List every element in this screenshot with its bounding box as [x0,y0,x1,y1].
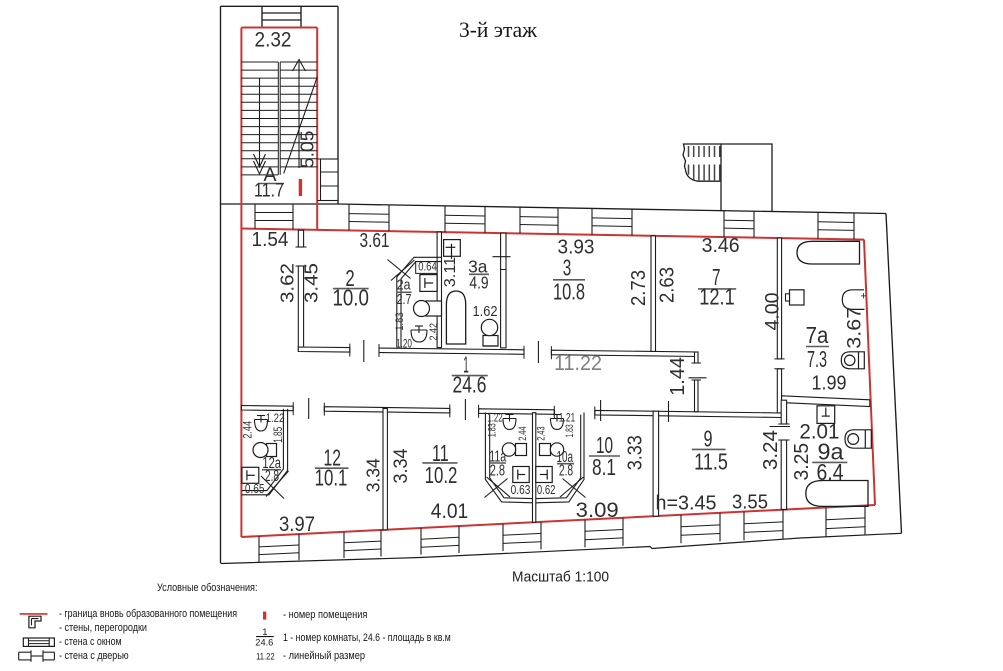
toilet 10a [536,467,552,483]
svg-text:1.21: 1.21 [559,411,576,425]
svg-text:3.46: 3.46 [702,235,740,257]
door jambs room11 door [449,404,451,417]
sink 3a [483,336,498,347]
svg-text:Масштаб 1:100: Масштаб 1:100 [512,569,609,586]
svg-text:3.97: 3.97 [279,513,315,536]
svg-text:3.11: 3.11 [442,257,459,288]
sink 2a [426,301,442,316]
wall room12/room11 [383,409,387,530]
door jambs hall-room2 [296,246,307,248]
svg-text:10.2: 10.2 [425,462,458,488]
svg-text:3.09: 3.09 [576,499,619,522]
door X mark 12a [266,471,289,497]
svg-text:3-й этаж: 3-й этаж [459,17,538,42]
door jambs 9a door [778,423,789,425]
top exterior wall outer edge [338,204,886,214]
svg-text:7а: 7а [806,322,829,348]
oval basin 7a [842,290,864,310]
svg-text:1.83: 1.83 [486,423,498,437]
svg-text:3.61: 3.61 [360,230,390,252]
dim tick corridor bottom 3 [600,400,602,421]
svg-text:3.25: 3.25 [791,443,813,481]
bottom wall window 7 [743,512,745,541]
svg-text:Условные обозначения:: Условные обозначения: [157,582,258,594]
red boundary main (top) [241,229,864,240]
corridor right wall upper [695,352,699,363]
red boundary main (left) [240,229,242,538]
svg-text:0.62: 0.62 [537,483,556,497]
svg-text:10.0: 10.0 [332,285,369,311]
svg-text:h=3.45: h=3.45 [656,493,717,515]
wall hall/room2 upper seg [298,230,303,247]
red room number mark I (staircase) [299,179,302,196]
red boundary main (right) [864,240,875,505]
svg-text:3.55: 3.55 [732,491,768,514]
svg-text:0.63: 0.63 [511,483,531,497]
sink 9a [845,430,871,448]
svg-text:1.22: 1.22 [266,411,285,425]
svg-text:0.65: 0.65 [245,482,265,496]
svg-text:2.43: 2.43 [536,426,548,440]
dim tick corridor bottom 1 [308,398,310,419]
wall room11/room10 (center of 11a-10a) [533,413,536,523]
svg-text:8.1: 8.1 [592,454,616,480]
svg-text:1.85: 1.85 [273,427,285,443]
svg-text:1.20: 1.20 [396,338,412,350]
svg-text:1.54: 1.54 [252,229,289,251]
underline A [258,183,284,185]
staircase right wall window [321,159,339,201]
svg-text:1.22: 1.22 [487,411,503,425]
svg-text:10.8: 10.8 [553,278,585,304]
corridor right wall lower [695,380,699,412]
top wall window 3 [519,207,521,233]
balcony hatched fire-escape part [683,144,721,181]
toilet 2a [420,275,437,292]
washbasin 12a [255,420,268,432]
svg-text:2.8: 2.8 [559,463,573,480]
svg-text:6.4: 6.4 [817,459,844,485]
balcony rectangular part [721,144,772,211]
staircase top window [261,6,263,27]
washbasin 10a [551,419,564,430]
staircase block outer walls [221,5,339,7]
toilet 12a [242,467,259,483]
wall 9/9a lower [781,440,786,509]
wall 7a/9a [782,396,870,407]
svg-text:0.64: 0.64 [418,260,437,274]
bottom wall window 4 [502,524,504,551]
staircase bottom band window [254,204,256,229]
svg-text:3.45: 3.45 [300,263,321,303]
bathtub 7a [797,241,860,264]
cabin 12a walls [241,409,287,495]
door X mark 2a [388,260,411,279]
svg-text:- линейный размер: - линейный размер [283,650,365,662]
dim tick corridor bottom 2 [464,399,466,420]
toilet 11a [513,467,529,483]
svg-text:10.1: 10.1 [315,465,348,491]
wall room10/room9 [653,411,659,516]
dim tick room2 south [363,340,365,362]
svg-text:11.5: 11.5 [694,449,728,475]
sink 10a [540,444,551,456]
svg-text:24.6: 24.6 [255,637,273,648]
cabin 10a walls [536,415,581,499]
stair flight divider [277,62,279,175]
staircase block bottom wall line [221,203,339,205]
sink 12a [267,444,277,457]
svg-text:3.67: 3.67 [844,307,866,349]
wall hall/room2 lower seg [298,266,303,351]
legend window symbol [23,638,54,646]
svg-text:12.1: 12.1 [699,284,734,310]
svg-text:- стена с дверью: - стена с дверью [59,650,129,662]
svg-text:- номер помещения: - номер помещения [283,609,367,621]
svg-text:- стены, перегородки: - стены, перегородки [59,622,147,634]
cabin 2a walls [397,257,442,347]
svg-text:3.34: 3.34 [390,448,412,483]
svg-text:3.62: 3.62 [276,263,297,303]
svg-text:2.8: 2.8 [265,468,279,485]
svg-text:11.7: 11.7 [254,180,284,202]
bathtub 9a [806,481,868,507]
svg-text:11.22: 11.22 [554,352,602,375]
top wall window 2 [444,206,446,232]
corridor bottom wall [241,406,293,411]
bottom wall window 3 [420,528,422,555]
svg-text:2.7: 2.7 [397,292,412,308]
washbasin 2a [411,330,427,342]
dim tick 9a wall [770,426,791,428]
dim tick red top at 3a/3 [493,256,511,258]
wall 4.00 upper (room7/7a) [777,238,781,359]
wall 9/9a upper [781,400,786,424]
door jambs room10 door [553,406,555,419]
bottom wall window 5 [584,520,586,548]
svg-text:1.99: 1.99 [812,373,847,395]
wall room3/room7 [651,236,656,352]
red boundary main (bottom) [241,505,875,537]
svg-text:4.00: 4.00 [763,293,784,331]
door jambs vestibule [692,362,702,364]
bottom wall window 6 [680,515,682,543]
sink 11a [516,444,527,456]
svg-text:7.3: 7.3 [807,346,827,372]
legend wall symbol [29,616,41,628]
svg-text:2.73: 2.73 [628,270,650,306]
door X mark 10a [563,479,586,498]
door jambs room3 door [523,346,525,359]
svg-text:3.93: 3.93 [558,237,595,259]
svg-text:4.01: 4.01 [431,499,468,523]
bottom wall window 1 [258,536,260,562]
wall 3a/3 [501,233,506,348]
dim tick corridor right wall [689,377,707,379]
svg-text:1 - номер комнаты, 24.6 - площ: 1 - номер комнаты, 24.6 - площадь в кв.м [283,632,451,644]
svg-text:2.44: 2.44 [242,421,254,439]
svg-text:+: + [860,291,866,303]
corridor top wall [298,347,350,352]
stair diagonal line [284,77,318,174]
svg-text:1.44: 1.44 [667,357,689,396]
toilet 9a [817,406,835,424]
boiler 7a [790,290,805,305]
bottom exterior wall outer edge [221,533,902,563]
right exterior wall outer edge [886,214,902,534]
toilet 3a [444,240,461,257]
door jambs room2 door [349,344,351,357]
washbasin 11a [503,419,516,430]
svg-text:24.6: 24.6 [453,372,487,398]
legend red I [263,612,266,620]
svg-text:2.32: 2.32 [255,29,292,52]
door jambs 7a door [774,358,784,360]
svg-text:- граница вновь образованного: - граница вновь образованного помещения [59,608,237,620]
bathtub 3a [446,291,465,344]
staircase red boundary [241,27,317,29]
niche 0.64 outline [416,262,437,274]
svg-text:3.34: 3.34 [363,458,384,492]
svg-text:2.8: 2.8 [490,463,505,480]
legend door symbol [19,651,31,653]
dim tick corridor top [537,341,539,363]
svg-text:11.22: 11.22 [256,651,275,662]
svg-text:1.62: 1.62 [473,304,498,320]
door jambs room12 door [292,402,294,415]
stair up arrow [298,62,300,168]
svg-text:5.05: 5.05 [297,130,318,168]
bottom wall window 2 [343,532,345,558]
svg-text:2.01: 2.01 [799,421,839,444]
svg-text:1.83: 1.83 [394,312,406,330]
svg-text:3.24: 3.24 [760,430,782,470]
svg-text:2.44: 2.44 [517,426,529,440]
svg-text:2.42: 2.42 [428,323,440,341]
svg-text:4.9: 4.9 [469,272,488,292]
dim tick corridor bottom 4 [668,401,670,422]
door X mark 11a [485,479,508,498]
stair down arrow [259,78,261,167]
svg-text:- стена с окном: - стена с окном [59,636,122,648]
svg-text:2.63: 2.63 [657,267,679,303]
cabin 11a walls [490,415,533,499]
top wall window 1 [348,204,350,230]
bottom wall window 8 [825,508,827,537]
sink 7a [841,352,864,369]
svg-text:1.83: 1.83 [564,424,576,437]
stair steps right flight [280,61,317,63]
wall 4.00 lower [777,369,781,413]
wall 2a/3a [437,232,441,348]
stair steps left flight [241,61,278,63]
top wall window 5 [723,211,725,237]
svg-text:3.33: 3.33 [625,435,647,470]
legend red line [20,613,48,615]
top wall window 6 [817,212,819,239]
top wall window 4 [591,208,593,234]
